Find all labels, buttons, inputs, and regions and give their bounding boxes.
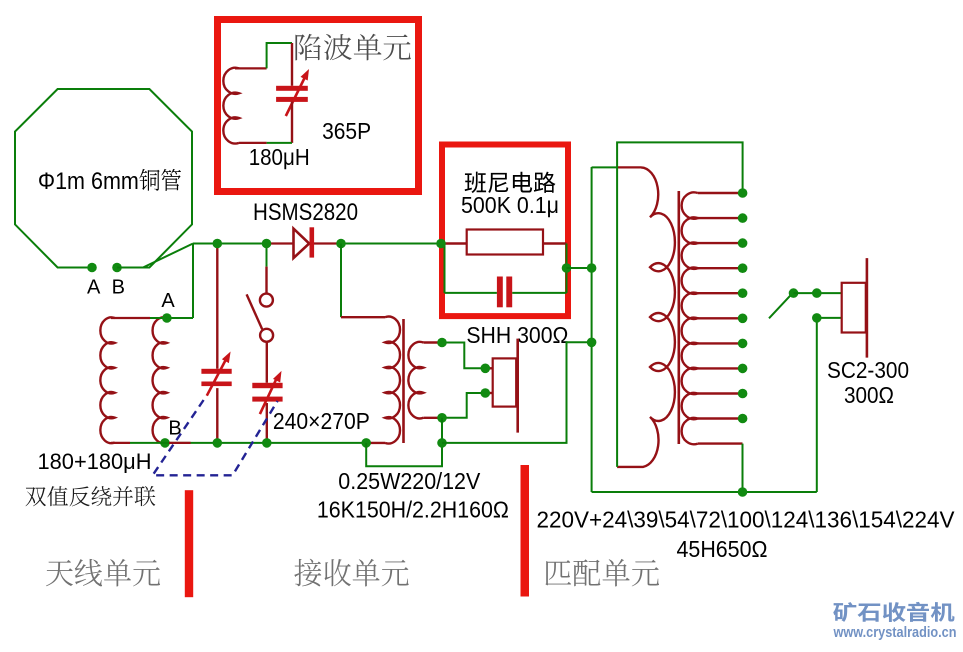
node T1 secondary bottom: [437, 413, 447, 423]
transformer T2 core: [677, 191, 680, 444]
capacitor C4 plates 0.1u: [497, 277, 503, 308]
wire bottom rail: [111, 442, 130, 444]
node S1 top on bus: [262, 239, 272, 249]
variable capacitor C1 leads: [216, 244, 218, 443]
speaker LS1 body: [842, 283, 866, 333]
node coil tap A: [162, 313, 172, 323]
node T2 tap 9: [738, 414, 748, 424]
switch S1 bottom contact: [260, 329, 273, 342]
node earphone upper terminal: [481, 364, 491, 374]
svg-text:16K150H/2.2H160Ω: 16K150H/2.2H160Ω: [317, 497, 509, 523]
variable capacitor C3 plates: [276, 86, 308, 91]
wire trap bottom: [291, 102, 293, 143]
transformer T1 primary winding: [385, 317, 400, 444]
variable capacitor C2 arrow: [260, 377, 278, 415]
coil L1 180uH left winding: [100, 317, 114, 443]
svg-text:匹配单元: 匹配单元: [543, 558, 660, 591]
node diode output junction: [336, 239, 346, 249]
tap wire T2 tap 3: [698, 267, 743, 269]
coil L3 trap: [223, 68, 239, 144]
node C2 bottom junction: [262, 438, 272, 448]
tap wire T2 tap 5: [698, 317, 743, 319]
resistor R1 body 500K: [467, 230, 543, 255]
speaker LS1 diaphragm bar: [866, 258, 869, 358]
svg-text:B: B: [112, 277, 125, 299]
switch S1 lever: [247, 294, 263, 329]
transformer T2 secondary top lead: [698, 192, 743, 194]
node T2 tap 2: [738, 238, 748, 248]
svg-text:45H650Ω: 45H650Ω: [677, 536, 768, 562]
svg-text:A: A: [87, 277, 101, 299]
svg-text:220V+24\39\54\72\100\124\136\1: 220V+24\39\54\72\100\124\136\154\224V: [537, 507, 956, 533]
node benny input: [436, 239, 446, 249]
node speaker top feed: [812, 288, 822, 298]
node T2 tap 0: [738, 188, 748, 198]
wire bus down to T1: [340, 244, 342, 318]
node rail under T2: [738, 487, 748, 497]
switch S1 feed wire: [266, 244, 268, 267]
wire T2 frame link: [617, 142, 743, 467]
svg-text:180μH: 180μH: [249, 144, 310, 170]
wire main bus: [193, 243, 267, 245]
node T2 tap 1: [738, 213, 748, 223]
node benny output: [562, 263, 572, 273]
variable capacitor C2 leads: [266, 342, 268, 443]
wire benny left side: [444, 244, 446, 293]
node antenna terminal B: [112, 263, 122, 273]
svg-text:SC2-300: SC2-300: [827, 357, 909, 383]
svg-text:A: A: [161, 290, 175, 312]
coil L2 180uH right winding: [153, 317, 167, 443]
svg-text:双值反绕并联: 双值反绕并联: [25, 485, 156, 510]
wire coil top link: [111, 317, 150, 319]
tap wire T2 tap 7: [698, 367, 743, 369]
wire T2 secondary bottom lead: [698, 442, 743, 444]
svg-text:180+180μH: 180+180μH: [38, 449, 152, 474]
earphone SHH driver body: [493, 358, 517, 406]
svg-text:365P: 365P: [322, 118, 371, 144]
svg-text:天线单元: 天线单元: [45, 558, 161, 591]
switch S1 top contact: [260, 294, 273, 307]
wire T1 secondary bottom to earphone: [423, 417, 445, 419]
switch S2 selector lever: [769, 294, 792, 318]
tap wire T2 tap 9: [698, 417, 743, 419]
loop antenna octagon, 1-turn copper tube: [15, 89, 192, 268]
node T2 feed from benny: [587, 263, 597, 273]
tap wire T2 tap 6: [698, 342, 743, 344]
svg-text:Φ1m 6mm铜管: Φ1m 6mm铜管: [38, 168, 182, 195]
node T2 feed from rail: [587, 338, 597, 348]
transformer T1 secondary winding: [408, 342, 423, 419]
svg-text:矿石收音机: 矿石收音机: [833, 601, 955, 625]
wire benny right side: [566, 244, 568, 293]
ganged capacitor dashed link: [153, 400, 278, 475]
divider bar antenna|receiver: [185, 490, 193, 597]
svg-text:www.crystalradio.cn: www.crystalradio.cn: [833, 625, 957, 641]
divider bar receiver|matching: [521, 465, 530, 597]
node T2 tap 4: [738, 288, 748, 298]
node T1 secondary top: [437, 338, 447, 348]
svg-text:陷波单元: 陷波单元: [293, 33, 412, 65]
node T2 tap 7: [738, 364, 748, 374]
tap wire T2 tap 8: [698, 392, 743, 394]
node speaker bottom feed: [812, 313, 822, 323]
wire T2 primary top lead: [592, 166, 617, 168]
transformer T2 secondary winding: [682, 192, 698, 444]
transformer T2 primary winding 45H: [617, 167, 675, 467]
variable capacitor C1 plates: [201, 369, 231, 374]
wire bus down to tank tap A: [192, 244, 194, 319]
transformer T1 core: [402, 319, 405, 443]
variable capacitor C1 arrow: [207, 357, 228, 396]
wire rail to matching section: [442, 342, 592, 443]
node coil tap B: [160, 438, 170, 448]
diode D1 triangle: [294, 229, 310, 258]
wire speaker bottom to rail: [817, 318, 842, 492]
resistor R1 leads: [444, 242, 567, 244]
svg-text:HSMS2820: HSMS2820: [253, 199, 358, 226]
node T2 tap 6: [738, 339, 748, 349]
variable capacitor C3 arrow: [286, 77, 305, 116]
wire earphone bottom to rail: [441, 418, 443, 443]
variable capacitor C2 plates: [252, 383, 282, 388]
earphone SHH diaphragm bar: [516, 339, 519, 433]
wire T2 feed line: [591, 167, 593, 492]
wire matching bottom rail: [592, 491, 817, 493]
svg-text:240×270P: 240×270P: [273, 408, 370, 434]
benny circuit red frame: [442, 145, 568, 317]
svg-text:接收单元: 接收单元: [294, 558, 410, 591]
trap unit red frame: [218, 20, 419, 192]
node earphone lower terminal: [481, 388, 491, 398]
node antenna terminal A: [87, 263, 97, 273]
svg-text:0.25W220/12V: 0.25W220/12V: [338, 468, 481, 494]
tap wire T2 tap 4: [698, 292, 743, 294]
wire terminal B to bus: [117, 244, 193, 268]
node T2 tap 8: [738, 389, 748, 399]
node S2 lever pivot: [789, 288, 799, 298]
transformer T1 primary top lead: [341, 316, 385, 318]
node C1 bottom junction: [213, 438, 223, 448]
svg-text:300Ω: 300Ω: [844, 382, 894, 408]
capacitor C4 wires: [445, 292, 567, 294]
wire benny output link: [567, 267, 592, 269]
diode D1 cathode bar: [310, 227, 315, 257]
wire trap top: [235, 67, 267, 69]
node rail right of T1: [437, 438, 447, 448]
wire T1 secondary top to earphone: [423, 341, 445, 343]
tap wire T2 tap 2: [698, 242, 743, 244]
node T2 tap 3: [738, 263, 748, 273]
node T2 tap 5: [738, 314, 748, 324]
node C1 top junction: [213, 239, 223, 249]
wire rail detour under T1: [366, 443, 442, 466]
tap wire T2 tap 1: [698, 217, 743, 219]
svg-text:500K 0.1μ: 500K 0.1μ: [461, 192, 559, 218]
wire S2 to speaker top: [794, 292, 842, 294]
transformer T1 primary bottom lead: [367, 442, 385, 444]
node rail left of T1: [361, 438, 371, 448]
